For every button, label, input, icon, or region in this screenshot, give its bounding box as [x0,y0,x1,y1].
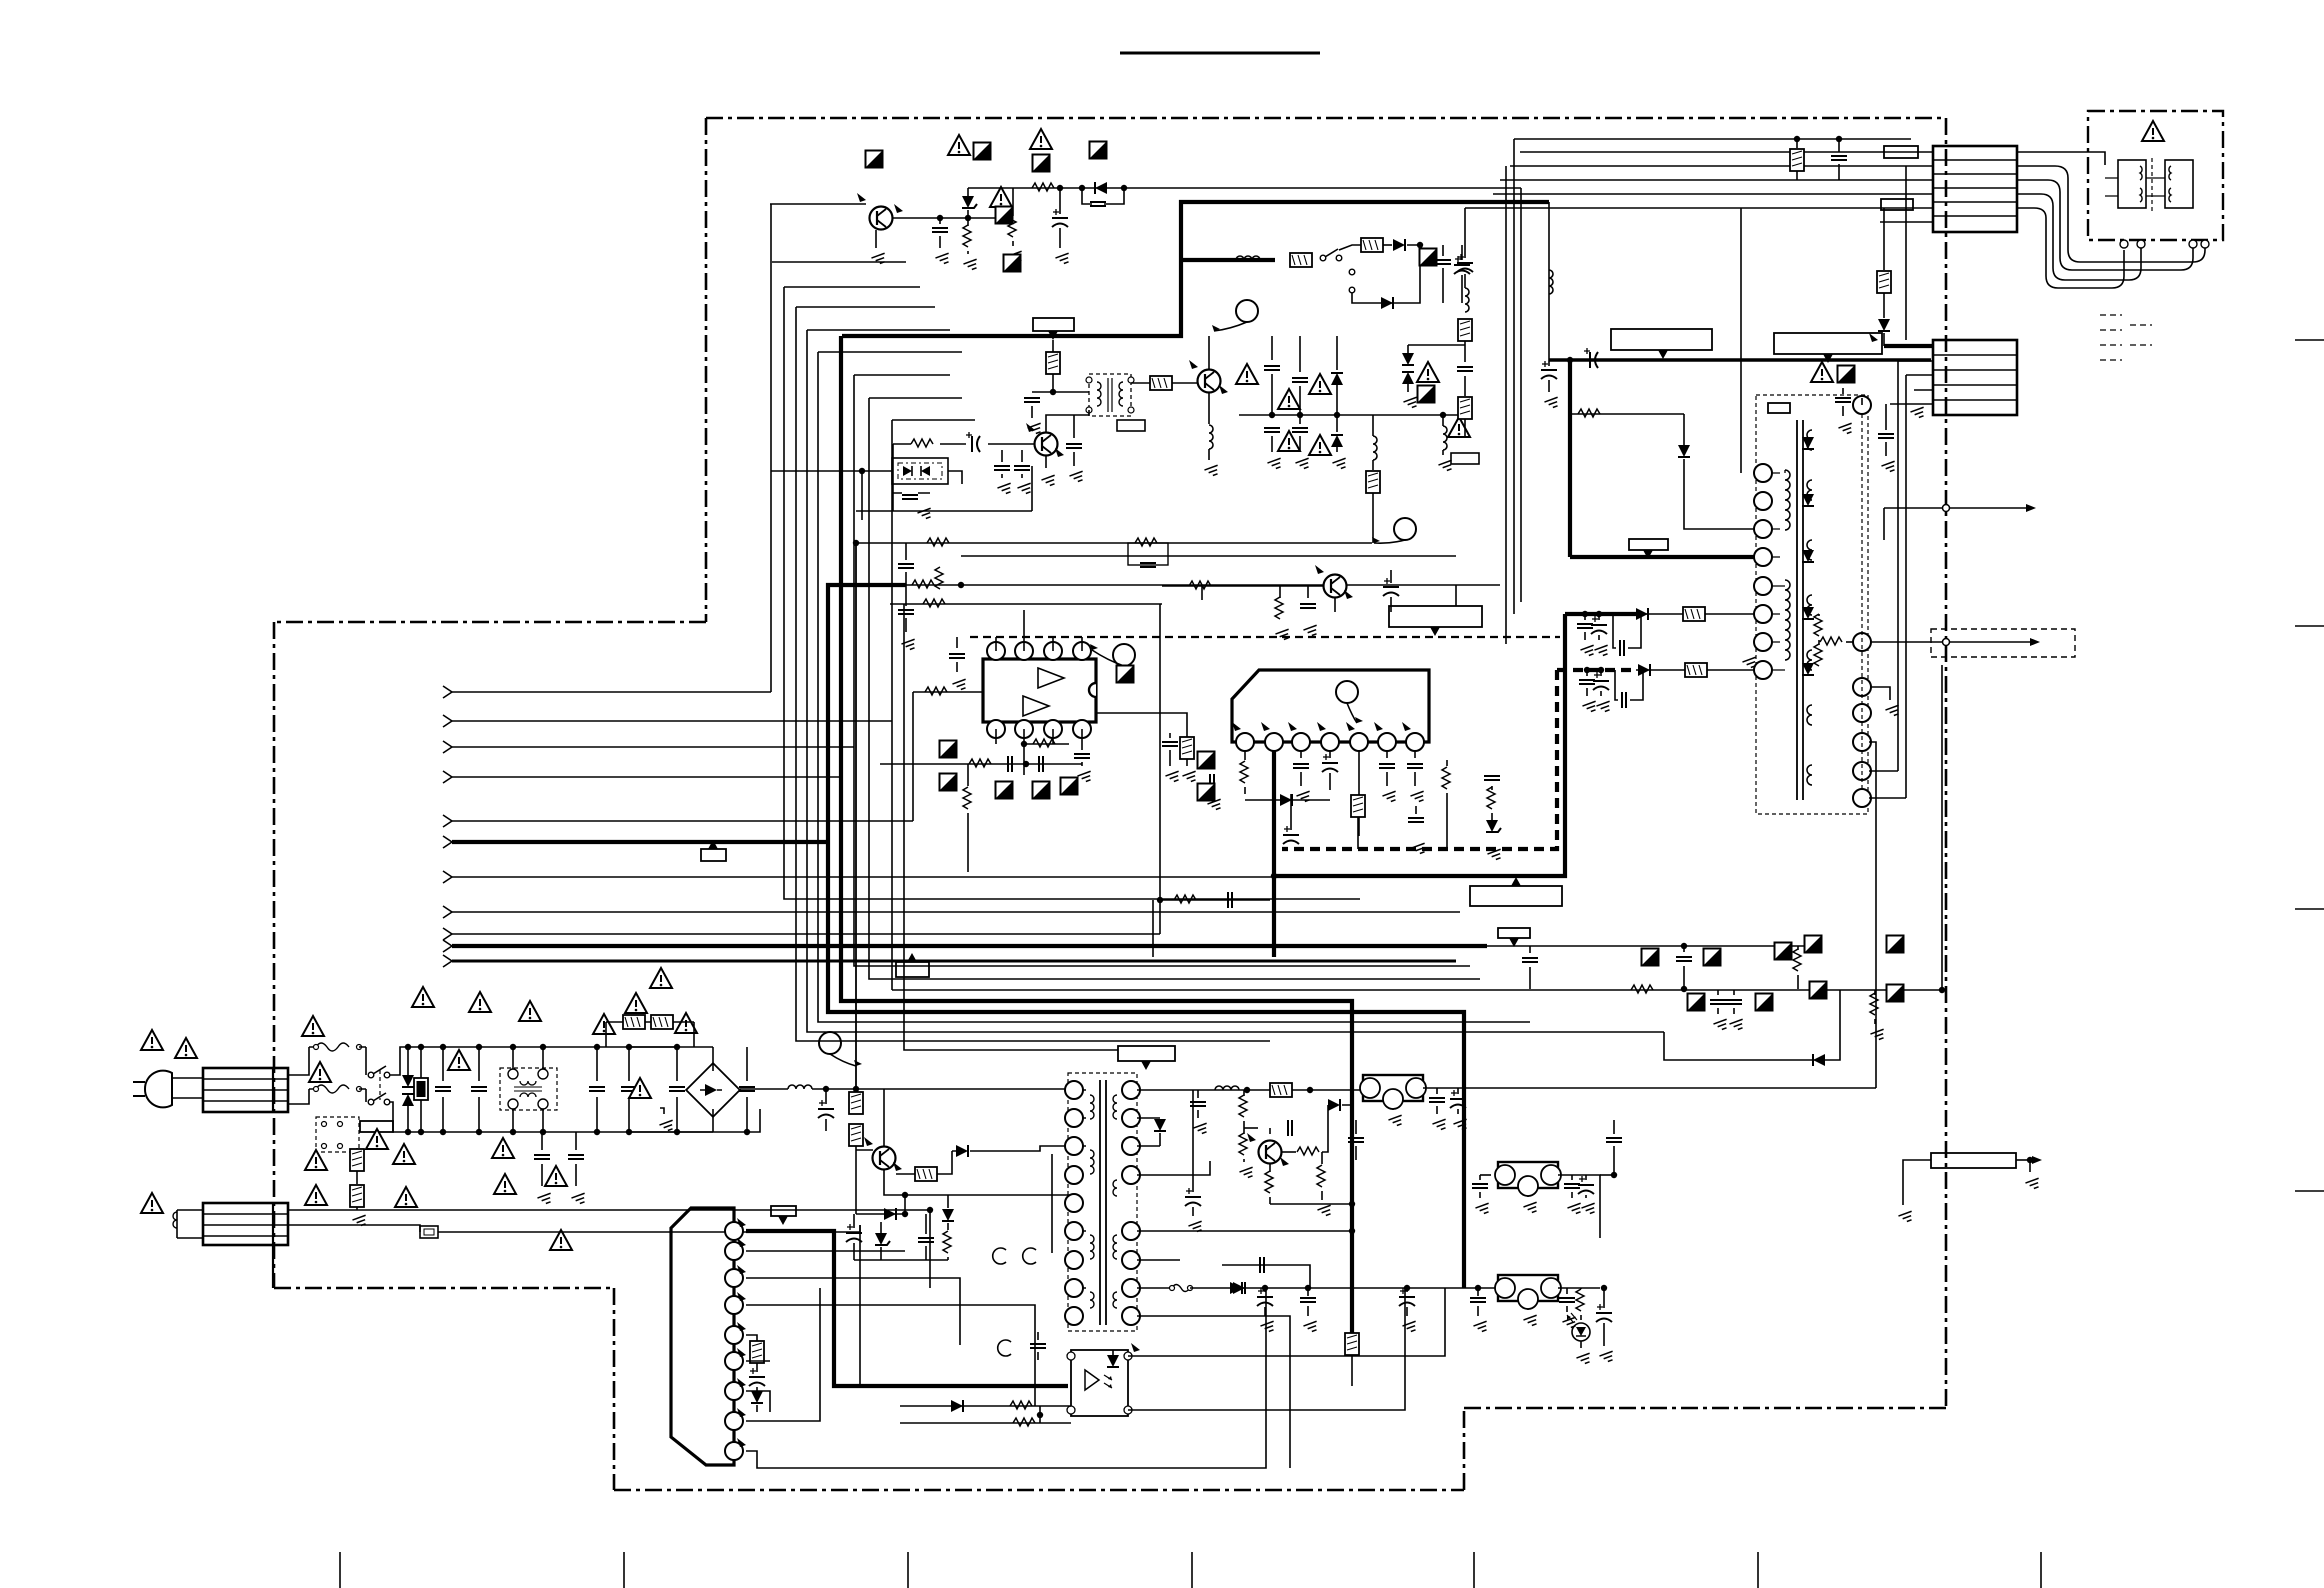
wire [2017,194,2141,280]
wire [1480,1174,1491,1176]
ground [1017,483,1033,495]
wire [1244,787,1246,794]
wire [1299,386,1301,424]
wire [712,1109,714,1132]
wire [1897,361,1899,771]
capacitor C15 [1140,563,1156,567]
wire [892,419,975,421]
ground [1838,423,1854,435]
wire [356,1171,358,1184]
resistor R45 [750,1341,764,1363]
ground [1410,791,1426,803]
junction [1475,1285,1481,1291]
wire [1152,900,1154,957]
wire [1243,1128,1245,1134]
net junction [1943,639,1950,646]
wire [1772,470,1785,670]
ground [997,483,1013,495]
warning mark [1278,431,1300,451]
junction [958,582,964,588]
junction [405,1044,411,1050]
wire [1406,1288,1408,1292]
capacitor C77 [1288,1120,1292,1136]
T5 primary pin [1065,1166,1083,1184]
capacitor C49 [1726,1000,1742,1004]
ground [1599,1351,1615,1363]
resistor R8 [927,538,949,546]
service mark [1117,666,1134,683]
wire [1871,641,2032,643]
wire [1883,508,1885,540]
diode D15 [1813,1054,1825,1066]
wire [1415,806,1417,814]
wire [2017,152,2105,165]
wire [1270,1203,1352,1205]
ground [952,679,968,691]
wire [1571,1175,1573,1180]
wire [884,1170,1074,1195]
fuse F2b [316,1085,349,1093]
wire [1169,733,1171,738]
warning mark [1030,129,1052,149]
wire [891,420,893,990]
wire [1797,975,1799,989]
ground [1910,407,1926,419]
diode D22 [942,1209,954,1221]
resistor R17 [1877,271,1891,293]
wire [939,236,941,248]
label box [1881,199,1913,210]
capacitor C61 [1257,1288,1273,1306]
diode D13 [1280,794,1292,806]
wire [1037,1352,1039,1360]
ground [901,639,917,651]
T5 secondary pin [1122,1279,1140,1297]
wedge [1315,565,1324,574]
inductor L8 [1215,1086,1239,1090]
resistor R52 [1297,1147,1319,1155]
IC3 pin [725,1382,743,1400]
wire [856,1149,873,1151]
IC1 pin [1015,720,1033,738]
IC label box [1611,329,1712,350]
wire [1842,406,1844,416]
junction [1584,667,1590,673]
wire [452,691,771,693]
IC2 pin [1350,733,1368,751]
wire [1336,336,1338,370]
junction [853,1086,859,1092]
wire [890,603,1162,605]
wire [756,1363,758,1372]
diode D19 [956,1145,968,1157]
ground [917,508,933,520]
wire [1052,637,1054,651]
wedge [737,1378,746,1387]
wire [1186,759,1188,766]
resistor R27 [1351,795,1365,817]
fold tick [907,1552,909,1588]
warning mark [469,992,491,1012]
wire [1457,1109,1459,1114]
resistor R51 [1239,1133,1247,1155]
wire [1890,403,1933,405]
resistor R18b [1458,397,1472,419]
wire [1137,1161,1210,1175]
junction [1681,986,1687,992]
wire [746,1097,748,1132]
capacitor C16 [898,564,914,568]
capacitor C9 [902,495,918,499]
T5 secondary pin [1122,1251,1140,1269]
wire [1192,1090,1194,1192]
boundary dash-dot line [1945,118,1948,1408]
wire [1046,410,1089,432]
IC1 callout [1113,644,1135,666]
wedge [1288,722,1297,731]
IC1 pin [1073,642,1091,660]
capacitor C27 [1457,254,1473,272]
wire [1001,474,1003,478]
wedge [1219,385,1228,394]
wire [512,1047,514,1069]
warning mark [550,1230,572,1250]
AC plug [145,1071,172,1108]
capacitor C56 [589,1087,605,1091]
resistor R54 [1317,1165,1325,1187]
wire [1300,772,1302,786]
IC1 pin [987,642,1005,660]
wire [628,1097,630,1132]
wire [1600,691,1602,696]
wire [1914,389,1933,391]
wire [818,351,962,353]
wire [939,218,941,224]
T4 secondary pin [1853,762,1871,780]
resistor R10 [923,599,945,607]
wire [1024,743,1069,745]
T5 primary pin [1065,1307,1083,1325]
ground [1239,1167,1255,1179]
junction [1057,185,1063,191]
wire [676,1047,678,1081]
wedge [1280,1157,1289,1166]
wire [1861,398,1863,405]
ground [1562,1317,1578,1329]
wire [856,542,1372,544]
wire [1160,899,1270,901]
wire [1529,946,1531,953]
wire [862,470,892,472]
wire [172,1078,203,1098]
wire [2105,178,2165,196]
wire [869,397,962,399]
wire [1407,345,1409,354]
ground [1204,465,1220,477]
wedge [1317,722,1326,731]
resistor [1820,637,1842,645]
junction [1440,412,1446,418]
wire [1329,751,1331,758]
warning mark [494,1174,516,1194]
wire [452,720,892,722]
wire [1505,166,1507,644]
wire [1436,1088,1438,1094]
ground [935,253,951,265]
junction [927,1207,933,1213]
resistor R53 [1265,1171,1273,1193]
wire [1903,1160,1931,1205]
resistor R19 [1290,253,1312,267]
wire [1128,1288,1405,1410]
ground [1523,1315,1539,1327]
wedge [893,1162,902,1171]
resistor R11 [935,567,943,589]
T5 secondary pin [1122,1307,1140,1325]
ground [1275,629,1291,641]
ground [1260,1321,1276,1333]
connector pin arrow [443,815,452,827]
capacitor C2 [1052,209,1068,227]
wire [947,1195,949,1208]
service mark [996,782,1013,799]
service mark [1756,994,1773,1011]
wire [1081,762,1083,766]
T5 windings [1090,1095,1094,1119]
wire [596,1097,598,1132]
junction [594,1044,600,1050]
wire [693,1022,695,1047]
junction [1939,987,1945,993]
wire [1874,990,1876,995]
wire [947,1257,949,1260]
junction [1836,136,1842,142]
filter tap [1548,202,1550,360]
IC2 pin2 thick [1272,751,1276,957]
wire [1491,786,1493,790]
thick feed [1181,258,1275,262]
inductor L5 [1465,288,1469,312]
regulator IC7 [1498,1275,1558,1301]
warning mark [545,1166,567,1186]
wire [1137,1287,1172,1289]
warning mark [1309,374,1331,394]
diode D26 [1154,1119,1166,1131]
capacitor C46 [1522,958,1538,962]
label box [1768,403,1790,413]
wire [1423,1087,1876,1089]
wire [995,729,997,744]
zener pair [1402,353,1414,365]
capacitor C68 [1348,1138,1364,1142]
resistor R56 [925,687,947,695]
wire [875,230,877,248]
IC1 pin [1044,642,1062,660]
T5 secondary pin [1122,1137,1140,1155]
wedge [737,1238,746,1247]
service mark [1033,155,1050,172]
wire [542,1047,544,1069]
diode D28 [1233,1282,1245,1294]
wire [825,1119,827,1131]
wire [1031,406,1033,418]
transistor Q6 [1259,1141,1282,1164]
capacitor C51 [435,1087,451,1091]
IC3 pin [725,1442,743,1460]
boundary dash-dot line [274,1287,614,1290]
wire [1898,360,1933,362]
wire [1329,773,1331,790]
wedge [894,204,903,213]
ground [1411,843,1427,855]
capacitor C4 [1024,398,1040,402]
wire [1603,1288,1605,1308]
wire [1307,1306,1309,1316]
resistor R23 [1578,409,1600,417]
wire [1192,1207,1194,1216]
junction [540,1129,546,1135]
wire [407,1106,409,1132]
wire [478,1097,480,1132]
capacitor C14b [1457,367,1473,371]
wire [1464,376,1466,396]
wire [1465,207,1933,209]
junction [1349,1201,1355,1207]
standby transformer T5 box [1068,1073,1137,1331]
inductor L7 [788,1085,812,1089]
wire [712,1047,714,1071]
wire [1446,793,1448,849]
wire [1197,1090,1199,1098]
wire [628,1047,630,1081]
junction [418,1129,424,1135]
wire [288,1210,930,1288]
wire [1883,293,1885,318]
wire [1479,1192,1481,1198]
T4 secondary winding [1807,430,1812,450]
capacitor C44 [1408,818,1424,822]
wire [1372,415,1374,436]
boundary dash-dot line [614,1489,1464,1492]
wire [746,1335,757,1341]
B+ to connector thick [1884,344,1933,348]
LED D29 [1572,1323,1590,1341]
capacitor C13 [1292,428,1308,432]
wire [1514,138,1911,140]
ground [1576,1353,1592,1365]
wire [1051,1154,1053,1253]
wire [967,188,969,196]
junction [1297,412,1303,418]
resistor R31 [1174,895,1196,903]
ground [537,1193,553,1205]
switch SW2 [368,1066,390,1078]
wire [1442,415,1444,426]
warning mark [990,187,1012,207]
wedge [1261,722,1270,731]
T4 secondary pin [1853,704,1871,722]
fold tick [2040,1552,2042,1588]
wire [893,492,930,494]
driver transformer T1 [1089,374,1131,416]
connector CN3 [203,1068,288,1112]
capacitor C23 [1878,434,1894,438]
resistor R15 [963,787,971,809]
wire [853,1214,855,1228]
warning mark [305,1185,327,1205]
wire [1869,742,1876,1088]
diode D30 [1328,1099,1340,1111]
label box [1884,146,1918,158]
wire [1883,333,1885,346]
label box [1629,539,1668,550]
diode D12 [1678,445,1690,457]
wire [1039,1406,1041,1423]
wire [1941,665,1943,989]
wire [1307,1288,1309,1296]
wire [1059,228,1061,248]
T4 primary pin [1754,492,1772,510]
T5 primary pin [1065,1109,1083,1127]
wire [1169,750,1171,766]
wire [1372,493,1374,543]
junction [1596,611,1602,617]
wire [746,1288,820,1421]
resistor R34 [1870,993,1878,1015]
wire [1339,245,1361,250]
wire [575,1164,577,1186]
boundary dash-dot line [613,1288,616,1490]
wire [1052,340,1054,352]
junction [823,1086,829,1092]
wire [1386,751,1388,758]
wire [1300,751,1302,758]
switch SW1 [1320,249,1342,261]
wire [1342,1090,1352,1105]
warning mark [1448,417,1470,437]
resistor R2 [1032,183,1054,191]
wire [1336,447,1338,452]
junction [1037,1412,1043,1418]
ground [1453,1119,1469,1131]
resistor R42 [849,1124,863,1146]
warning mark [650,968,672,988]
resistor R39 [623,1015,645,1029]
junction [1050,389,1056,395]
zener pair up [1402,372,1414,384]
wire [512,1109,514,1132]
capacitor C25 [1835,398,1851,402]
wire [880,1247,882,1260]
junction [674,1044,680,1050]
wire [1137,1230,1352,1232]
wire [1740,208,1742,473]
capacitor C78 [1162,742,1178,746]
resistor R29 [1487,787,1495,809]
wire [904,604,1118,1050]
wire [1031,466,1033,511]
resistor R22 [1685,663,1707,677]
wire [1520,188,1522,602]
ground [1165,771,1181,783]
wire [452,820,913,822]
wire [541,1164,543,1186]
T5 core [1100,1080,1106,1325]
speaker unit dash-dot box [2088,111,2223,240]
IC3 pin [725,1326,743,1344]
T5 primary pin [1065,1081,1083,1099]
junction [1021,741,1027,747]
